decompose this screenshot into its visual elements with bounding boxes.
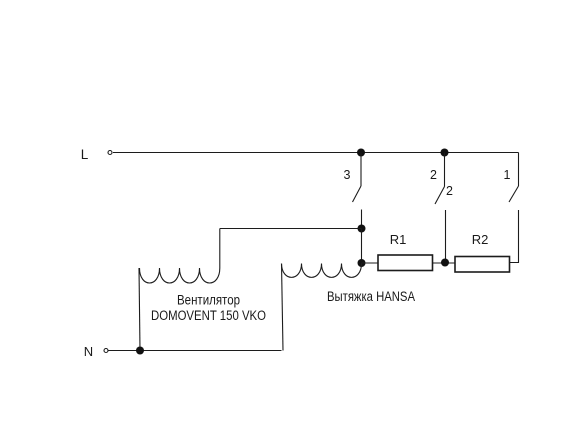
wire node3 to coil node bbox=[361, 229, 363, 264]
junction dot N bbox=[136, 347, 144, 355]
junction dot top-2 bbox=[441, 149, 449, 157]
wire hood left riser bbox=[282, 264, 284, 351]
svg-text:2: 2 bbox=[446, 184, 453, 198]
inductor fan coil bbox=[140, 268, 220, 283]
svg-text:2: 2 bbox=[430, 168, 437, 182]
svg-text:L: L bbox=[81, 147, 89, 162]
svg-text:3: 3 bbox=[344, 168, 351, 182]
junction dot R1-R2 bbox=[441, 259, 449, 267]
wire fan left riser bbox=[139, 268, 140, 351]
inductor hood coil bbox=[282, 264, 362, 278]
resistor R1 bbox=[378, 255, 433, 271]
svg-text:N: N bbox=[84, 344, 93, 359]
junction dot mid bbox=[358, 225, 366, 233]
svg-text:R2: R2 bbox=[472, 232, 489, 247]
junction dot coil-R1 bbox=[358, 259, 366, 267]
svg-text:R1: R1 bbox=[390, 232, 407, 247]
switch S3 bbox=[353, 153, 362, 229]
wire N rail bbox=[108, 350, 281, 352]
junction dot top-3 bbox=[357, 149, 365, 157]
svg-text:Вентилятор: Вентилятор bbox=[177, 293, 240, 308]
wire fan top horizontal bbox=[220, 228, 362, 230]
resistor R2 bbox=[455, 257, 510, 273]
switch S2 bbox=[435, 153, 446, 263]
wire node to R1 bbox=[362, 262, 379, 264]
wire fan right riser bbox=[219, 229, 221, 269]
wire R1 to R2 bbox=[433, 262, 456, 264]
wire L rail bbox=[113, 152, 519, 154]
svg-text:DOMOVENT 150 VKO: DOMOVENT 150 VKO bbox=[151, 308, 266, 323]
svg-text:1: 1 bbox=[504, 168, 511, 182]
svg-text:Вытяжка HANSA: Вытяжка HANSA bbox=[327, 289, 415, 304]
switch S1 bbox=[509, 153, 519, 263]
terminal L bbox=[108, 151, 112, 155]
terminal N bbox=[104, 349, 108, 353]
